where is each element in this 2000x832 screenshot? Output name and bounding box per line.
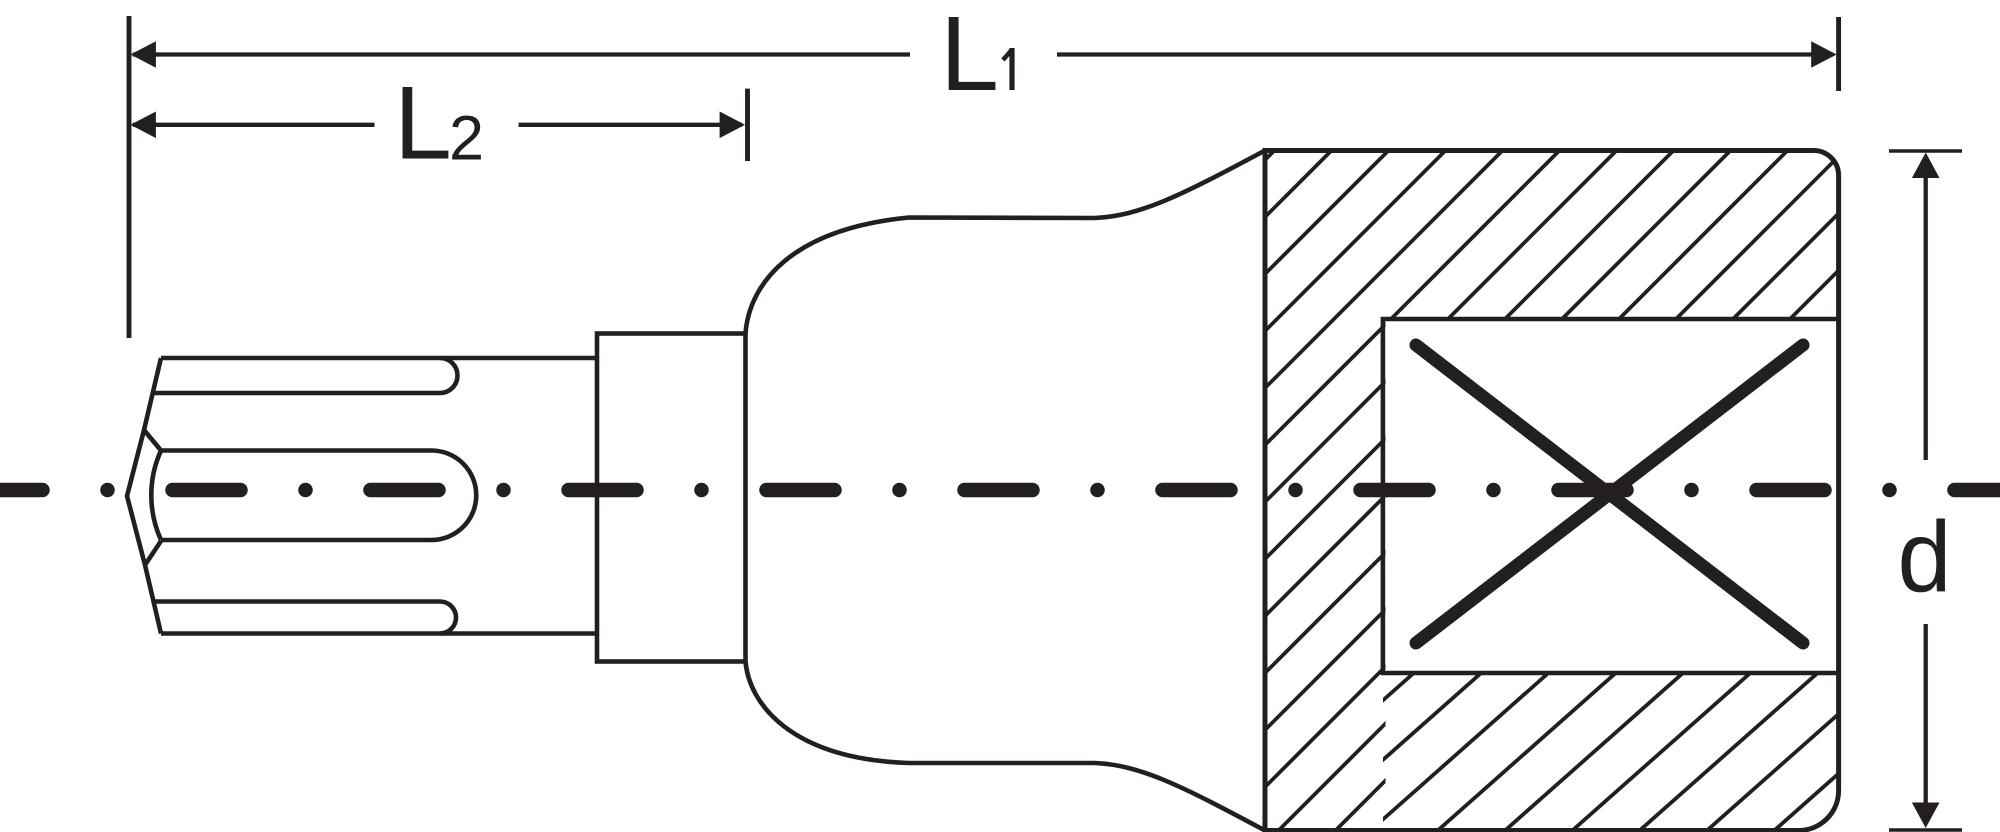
svg-text:L: L bbox=[394, 66, 452, 182]
svg-text:L: L bbox=[940, 0, 999, 113]
svg-text:d: d bbox=[1898, 501, 1952, 613]
svg-text:2: 2 bbox=[449, 104, 484, 174]
